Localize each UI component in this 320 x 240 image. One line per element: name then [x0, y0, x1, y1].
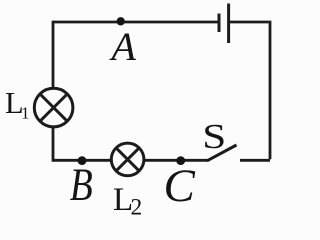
svg-text:C: C — [164, 160, 196, 212]
svg-text:S: S — [202, 117, 226, 156]
svg-text:B: B — [70, 159, 93, 211]
svg-text:1: 1 — [21, 103, 30, 122]
svg-text:2: 2 — [131, 195, 143, 220]
svg-text:A: A — [109, 24, 137, 69]
